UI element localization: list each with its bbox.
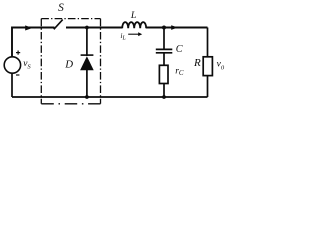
diode bottom junction	[85, 95, 89, 99]
dash-dot box around switch and diode	[41, 19, 100, 104]
diode cathode bar	[81, 54, 94, 56]
wire from switch to inductor	[66, 27, 122, 29]
wire right branch upper segment	[207, 28, 209, 58]
plus sign of source	[16, 51, 20, 55]
svg-text:D: D	[64, 59, 73, 71]
capacitor C plates	[156, 48, 173, 50]
node arrow on input wire	[25, 25, 32, 30]
capacitor branch wire top	[163, 28, 165, 49]
voltage source vS circle	[4, 57, 20, 73]
switch S blade	[54, 20, 63, 30]
diode top junction	[85, 26, 89, 30]
svg-text:L: L	[130, 10, 136, 21]
inductor L coil	[122, 22, 146, 28]
wire right branch lower segment	[207, 75, 209, 97]
node dot after inductor	[162, 26, 166, 30]
arrow on output wire	[171, 25, 178, 30]
wire top-left rail from source to switch	[12, 28, 55, 58]
minus sign of source	[16, 74, 19, 76]
svg-text:C: C	[176, 44, 183, 55]
wire between C and rC	[163, 54, 165, 66]
svg-text:S: S	[58, 2, 64, 14]
wire rC to bottom rail	[163, 84, 165, 98]
diode triangle	[80, 56, 94, 70]
bottom rail	[12, 96, 208, 98]
iL current arrow	[128, 33, 138, 35]
resistor rC box	[159, 65, 168, 83]
capacitor bottom junction	[162, 95, 166, 99]
diode D vertical branch	[86, 28, 88, 57]
wire from inductor to top-right corner	[146, 27, 208, 29]
svg-text:R: R	[193, 57, 201, 69]
wire source bottom	[11, 73, 13, 97]
resistor R box	[203, 57, 212, 76]
